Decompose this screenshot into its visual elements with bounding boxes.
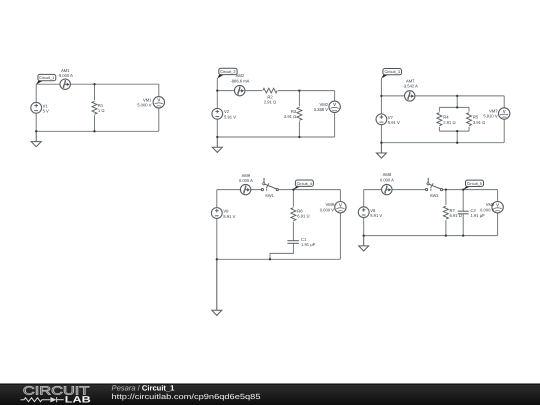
wire top	[381, 95, 504, 97]
voltmeter VM7	[499, 108, 510, 119]
wire mid vertical bottom	[456, 131, 458, 143]
wire left stub	[216, 78, 218, 137]
resistor R6	[290, 207, 297, 222]
wire top right of switch	[278, 189, 340, 191]
node dot top-left	[380, 95, 382, 97]
svg-text:V1: V1	[43, 103, 49, 108]
wire left	[363, 190, 365, 236]
svg-text:1 Ω: 1 Ω	[98, 108, 105, 113]
voltage source V1	[31, 102, 42, 113]
label flag Circuit_5	[463, 180, 484, 190]
node dot top-left	[216, 89, 218, 91]
wire top	[36, 83, 159, 85]
node dot ground	[35, 130, 37, 132]
wire left stub	[380, 78, 382, 143]
ground (long stem)	[216, 259, 218, 310]
svg-text:1.91 µF: 1.91 µF	[471, 213, 486, 218]
wire R3 branch	[298, 91, 300, 137]
svg-text:0.000 V: 0.000 V	[320, 207, 335, 212]
node dot R3 bottom	[298, 136, 300, 138]
svg-text:2.91 Ω: 2.91 Ω	[443, 120, 455, 125]
svg-text:-3.542 A: -3.542 A	[402, 84, 418, 89]
svg-text:2.91 Ω: 2.91 Ω	[264, 100, 276, 105]
svg-text:5.91 V: 5.91 V	[223, 214, 235, 219]
label flag Circuit_1	[36, 74, 56, 84]
svg-text:5.91 V: 5.91 V	[388, 120, 400, 125]
svg-text:R1: R1	[98, 103, 104, 108]
switch SW1	[261, 178, 278, 191]
wire bottom	[36, 130, 159, 132]
label flag Circuit_3	[381, 69, 401, 79]
voltage source V7	[376, 114, 387, 125]
node dot R7 bottom	[445, 234, 447, 236]
ammeter AM9	[240, 184, 250, 194]
svg-text:0.000 A: 0.000 A	[239, 178, 253, 183]
wire right	[158, 84, 160, 131]
svg-text:1.91 µF: 1.91 µF	[301, 242, 316, 247]
svg-text:3.91 Ω: 3.91 Ω	[284, 114, 296, 119]
resistor R1	[91, 100, 98, 115]
svg-text:http://circuitlab.com/cp9n6qd6: http://circuitlab.com/cp9n6qd6e5q85	[112, 392, 261, 401]
voltmeter VM2	[329, 101, 340, 112]
wire R7 branch	[445, 190, 447, 236]
svg-text:SW1: SW1	[265, 193, 274, 198]
node dot mid bottom wire	[456, 142, 458, 144]
wire right	[334, 91, 336, 137]
resistor R2 (horizontal)	[262, 87, 278, 94]
node dot parallel top	[456, 106, 458, 108]
svg-text:Circuit_1: Circuit_1	[39, 75, 54, 80]
node dot C2 top	[462, 188, 464, 190]
node dot C2 bottom	[462, 234, 464, 236]
wire R1 branch	[94, 84, 96, 131]
svg-text:Circuit_3: Circuit_3	[385, 69, 400, 74]
svg-text:-5.000 A: -5.000 A	[57, 73, 73, 78]
wire R4 branch	[438, 107, 440, 131]
resistor R3	[296, 106, 303, 121]
ammeter AM8	[382, 184, 392, 194]
capacitor C2	[458, 211, 469, 214]
logo resistor-diode glyph	[21, 397, 64, 402]
wire left	[216, 190, 218, 260]
label flag Circuit_4	[293, 180, 313, 190]
ammeter AM1	[60, 79, 70, 89]
svg-text:Circuit_2: Circuit_2	[220, 69, 235, 74]
wire R5 branch	[468, 107, 470, 131]
node dot R1 bottom	[93, 130, 95, 132]
ground	[359, 236, 369, 251]
svg-text:5 V: 5 V	[43, 109, 49, 114]
wire top left of switch	[364, 189, 426, 191]
wire right	[497, 190, 499, 236]
svg-text:3.91 Ω: 3.91 Ω	[473, 120, 485, 125]
voltage source V9	[211, 208, 222, 219]
ammeter AM7	[405, 91, 415, 101]
svg-text:AM2: AM2	[236, 73, 245, 78]
svg-text:Circuit_4: Circuit_4	[297, 181, 313, 186]
wire bottom	[364, 235, 498, 237]
node dot mid top wire	[456, 95, 458, 97]
wire mid vertical top	[456, 96, 458, 108]
footer bar	[0, 384, 540, 405]
node dot parallel bottom	[456, 130, 458, 132]
svg-text:0.000 A: 0.000 A	[380, 177, 394, 182]
wire right	[339, 190, 341, 260]
node dot ground	[216, 258, 218, 260]
voltage source V2	[212, 108, 223, 119]
ground	[376, 143, 386, 158]
wire top	[217, 90, 334, 92]
wire below C1 jog	[270, 243, 293, 259]
wire top right of switch	[442, 189, 497, 191]
wire parallel top bar	[439, 106, 469, 108]
node dot ground	[380, 142, 382, 144]
ammeter AM2	[235, 85, 245, 95]
svg-text:-866.6 mA: -866.6 mA	[230, 78, 249, 83]
wire bottom	[217, 136, 334, 138]
wire bottom	[381, 142, 504, 144]
resistor R7	[443, 205, 450, 220]
node dot C1 bottom	[269, 258, 271, 260]
svg-text:0.000 V: 0.000 V	[480, 207, 495, 212]
node dot ground	[363, 234, 365, 236]
wire parallel bottom bar	[439, 130, 469, 132]
svg-text:5.91 V: 5.91 V	[370, 213, 382, 218]
svg-text:Circuit_5: Circuit_5	[467, 181, 482, 186]
resistor R4	[436, 112, 443, 127]
switch SW2	[426, 178, 443, 191]
svg-text:5.91 V: 5.91 V	[224, 114, 236, 119]
voltmeter VM8	[492, 202, 503, 213]
voltmeter VM1	[153, 97, 164, 108]
wire R6/C1 branch	[292, 190, 294, 241]
node dot R6 top	[292, 188, 294, 190]
svg-text:SW2: SW2	[430, 193, 439, 198]
svg-text:5.910 V: 5.910 V	[483, 114, 498, 119]
svg-text:5.000 V: 5.000 V	[137, 103, 152, 108]
wire bottom	[217, 258, 341, 260]
wire left	[35, 84, 37, 131]
node dot R3 top	[298, 89, 300, 91]
ground	[212, 137, 222, 152]
wire top left of switch	[217, 189, 262, 191]
wire C2 branch	[462, 190, 464, 212]
svg-text:6.91 Ω: 6.91 Ω	[297, 214, 309, 219]
voltage source V8	[358, 207, 369, 218]
svg-text:LAB: LAB	[65, 395, 91, 405]
svg-text:6.91 Ω: 6.91 Ω	[450, 213, 462, 218]
capacitor C1	[287, 241, 299, 244]
node dot R1 top	[93, 83, 95, 85]
label flag Circuit_2	[217, 68, 237, 78]
ground	[31, 131, 41, 146]
voltmeter VM9	[335, 202, 346, 213]
resistor R5	[466, 112, 473, 127]
node dot ground	[216, 136, 218, 138]
svg-text:3.388 V: 3.388 V	[314, 107, 329, 112]
wire right	[503, 96, 505, 143]
node dot R7 top	[445, 188, 447, 190]
